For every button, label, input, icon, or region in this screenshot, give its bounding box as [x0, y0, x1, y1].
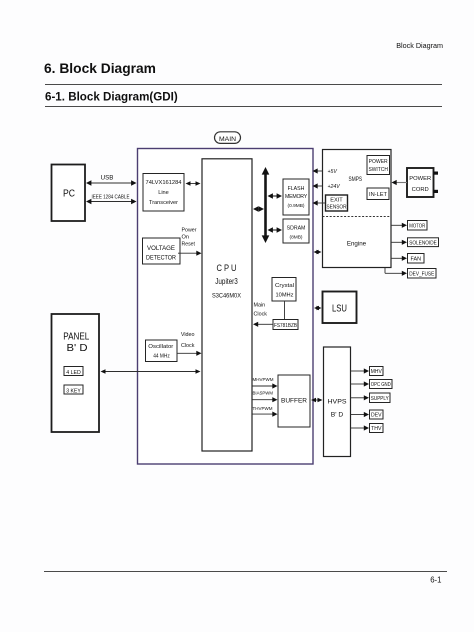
- svg-text:(8MB): (8MB): [289, 235, 302, 241]
- svg-text:EXIT: EXIT: [330, 198, 343, 204]
- svg-text:3 KEY: 3 KEY: [66, 388, 81, 394]
- svg-text:Transceiver: Transceiver: [149, 200, 178, 206]
- svg-text:Block Diagram: Block Diagram: [396, 41, 443, 50]
- svg-text:SUPPLY: SUPPLY: [371, 396, 390, 402]
- svg-text:VOLTAGE: VOLTAGE: [147, 246, 175, 252]
- svg-text:BIASPWM: BIASPWM: [253, 391, 274, 397]
- svg-text:BUFFER: BUFFER: [281, 398, 307, 405]
- svg-text:Jupiter3: Jupiter3: [215, 277, 238, 286]
- svg-text:SDRAM: SDRAM: [287, 226, 306, 232]
- svg-text:C P U: C P U: [217, 263, 237, 273]
- svg-text:DETECTOR: DETECTOR: [146, 256, 177, 262]
- svg-text:LSU: LSU: [332, 303, 347, 315]
- svg-text:FLASH: FLASH: [288, 186, 305, 192]
- svg-text:Oscillator: Oscillator: [148, 344, 173, 350]
- svg-text:IEEE 1284 CABLE: IEEE 1284 CABLE: [92, 195, 131, 201]
- svg-text:FS781BZB: FS781BZB: [274, 323, 298, 329]
- svg-text:SWITCH: SWITCH: [368, 167, 388, 173]
- svg-text:B' D: B' D: [331, 412, 344, 419]
- svg-text:MHV: MHV: [371, 369, 383, 375]
- svg-text:MEMORY: MEMORY: [285, 194, 308, 200]
- svg-text:Clock: Clock: [254, 312, 268, 318]
- svg-text:SENSOR: SENSOR: [327, 205, 347, 211]
- svg-text:DEV: DEV: [371, 413, 382, 419]
- svg-text:POWER: POWER: [409, 176, 431, 182]
- svg-text:USB: USB: [101, 175, 114, 182]
- svg-text:MHVPWM: MHVPWM: [253, 377, 274, 383]
- svg-text:Reset: Reset: [182, 242, 196, 248]
- svg-text:Line: Line: [158, 190, 169, 196]
- svg-text:Main: Main: [254, 303, 266, 309]
- svg-text:THV: THV: [371, 426, 382, 432]
- svg-text:Engine: Engine: [347, 241, 367, 248]
- svg-text:SMPS: SMPS: [349, 176, 363, 183]
- svg-text:OPC GND: OPC GND: [371, 382, 391, 388]
- svg-text:44 MHz: 44 MHz: [153, 354, 170, 360]
- svg-text:MAIN: MAIN: [219, 136, 236, 143]
- svg-text:6-1. Block Diagram(GDI): 6-1. Block Diagram(GDI): [45, 90, 178, 103]
- svg-text:Video: Video: [181, 332, 195, 338]
- svg-text:6-1: 6-1: [430, 575, 441, 584]
- svg-text:POWER: POWER: [369, 159, 388, 165]
- svg-text:+24V: +24V: [328, 184, 341, 190]
- svg-text:S3C46M0X: S3C46M0X: [212, 293, 241, 300]
- svg-text:4 LED: 4 LED: [66, 370, 81, 376]
- svg-text:IN-LET: IN-LET: [369, 192, 388, 198]
- svg-text:Crystal: Crystal: [275, 283, 294, 289]
- svg-text:10MHz: 10MHz: [276, 293, 294, 299]
- svg-text:MOTOR: MOTOR: [409, 223, 425, 229]
- svg-text:74LVX161284: 74LVX161284: [146, 180, 182, 186]
- svg-text:DEV_FUSE: DEV_FUSE: [409, 271, 435, 277]
- svg-text:6. Block Diagram: 6. Block Diagram: [44, 61, 156, 76]
- svg-text:HVPS: HVPS: [328, 399, 348, 406]
- svg-text:PANEL: PANEL: [63, 330, 89, 342]
- svg-text:THVPWM: THVPWM: [253, 406, 273, 412]
- svg-text:PC: PC: [63, 187, 75, 199]
- svg-text:FAN: FAN: [411, 256, 422, 262]
- svg-text:+5V: +5V: [328, 169, 338, 175]
- svg-text:On: On: [182, 235, 189, 241]
- svg-text:Power: Power: [182, 227, 197, 233]
- svg-text:SOLENOIDE: SOLENOIDE: [409, 240, 437, 246]
- svg-text:(0.9MB): (0.9MB): [287, 203, 304, 209]
- svg-text:CORD: CORD: [412, 187, 429, 193]
- svg-text:Clock: Clock: [181, 343, 195, 349]
- svg-text:B' D: B' D: [67, 342, 88, 354]
